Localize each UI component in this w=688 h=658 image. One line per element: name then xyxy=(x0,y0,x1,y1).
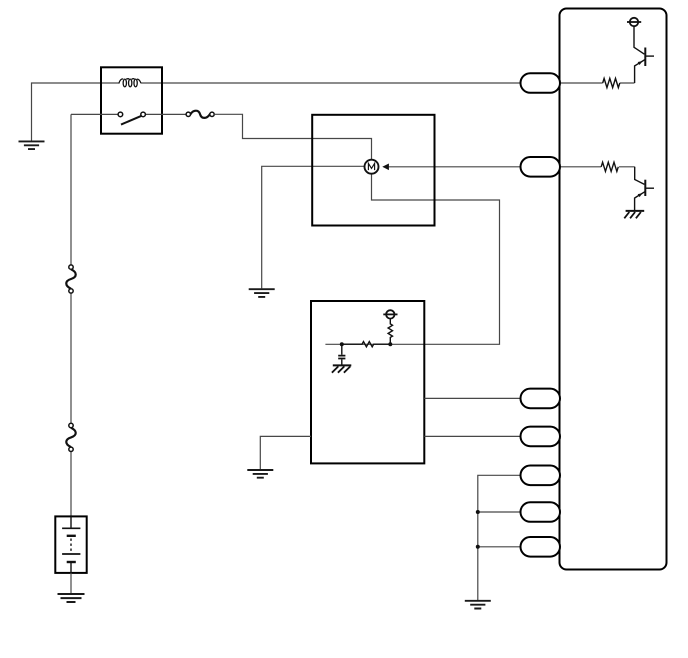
wire: pill 2 to resistor R2 and transistor Q2 xyxy=(560,166,635,168)
wire: ECU pill 7 to ground bus xyxy=(478,546,521,548)
wire: fuse to motor box xyxy=(214,114,371,159)
wire: ECU pill 5 to ground bus xyxy=(478,475,521,600)
transistor Q2 xyxy=(635,167,654,211)
resistor R4 xyxy=(342,342,391,347)
wire: battery feed to relay switch xyxy=(71,113,118,115)
wire: relay switch to fuse xyxy=(145,113,186,115)
pill connector 7 xyxy=(521,537,561,557)
fuse F1 xyxy=(190,111,209,118)
inline connector IC1 xyxy=(66,269,75,288)
motor M1 xyxy=(365,160,379,174)
pill connector 5 xyxy=(521,466,561,486)
battery BAT xyxy=(55,516,86,573)
ground G2 xyxy=(249,289,275,297)
ground G1 xyxy=(19,141,45,149)
pill connector 2 xyxy=(521,157,561,177)
capacitor C1 xyxy=(338,344,345,364)
wire: control box to ECU pill 3 xyxy=(424,397,521,399)
control box xyxy=(311,301,424,463)
motor box xyxy=(312,115,434,226)
wire: relay switch battery feed vertical xyxy=(70,114,72,516)
chassis ground GH1 xyxy=(624,211,644,218)
wire: relay coil to ECU pill 1 xyxy=(101,82,521,84)
relay coil xyxy=(119,79,141,87)
junction node A xyxy=(340,342,344,346)
transistor Q1 xyxy=(634,26,654,83)
pill connector 4 xyxy=(521,427,561,447)
ECU block xyxy=(560,9,667,570)
wire: pill 1 to resistor R1 and transistor Q1 xyxy=(560,82,635,84)
wire: motor left terminal to ground G2 xyxy=(262,166,365,288)
arrow into motor xyxy=(382,164,389,171)
wire: ECU pill 6 to ground bus xyxy=(478,511,521,513)
pill connector 3 xyxy=(521,389,561,409)
wire: battery to ground G5 xyxy=(70,573,72,594)
chassis ground GH2 xyxy=(332,365,351,372)
relay box xyxy=(101,67,162,133)
lamp symbol L1 xyxy=(627,18,641,26)
pill connector 6 xyxy=(521,502,561,522)
ground G3 xyxy=(247,470,273,478)
junction node B xyxy=(388,342,392,346)
ground G5 xyxy=(58,594,85,602)
wire: motor right terminal to ECU pill 2 xyxy=(389,166,521,168)
ground G4 xyxy=(465,601,491,609)
wire: motor lower terminal loop to control box xyxy=(325,174,499,344)
wire: control box left output to ground G3 xyxy=(260,436,311,469)
wire: ground riser to relay coil xyxy=(32,83,102,141)
resistor R3 xyxy=(388,319,392,345)
lamp symbol L2 xyxy=(383,310,397,318)
relay switch xyxy=(118,112,145,117)
resistor R1 xyxy=(603,78,620,87)
resistor R2 xyxy=(601,162,618,171)
wire: control box to ECU pill 4 xyxy=(424,435,521,437)
junction node D xyxy=(476,545,480,549)
junction node C xyxy=(476,510,480,514)
inline connector IC2 xyxy=(66,428,75,447)
pill connector 1 xyxy=(521,73,561,93)
